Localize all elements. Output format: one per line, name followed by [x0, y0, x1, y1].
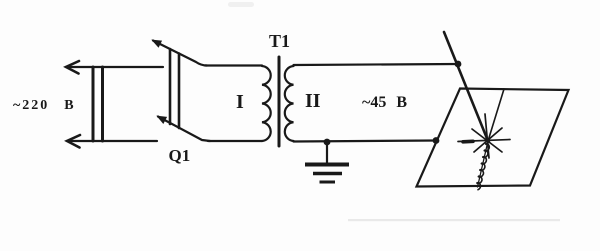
transformer T1 core [278, 57, 281, 146]
node: electrode junction dot [455, 61, 462, 68]
wire: secondary top to electrode [294, 64, 459, 65]
transformer T1 primary winding [262, 66, 271, 141]
switch Q1 top blade [153, 41, 207, 66]
weld seam squiggle [477, 144, 489, 190]
switch Q1 bottom blade arrowhead [158, 117, 166, 123]
wire: switch to primary bottom [208, 140, 262, 142]
transformer T1 secondary winding [285, 66, 294, 141]
node: ground junction dot [324, 139, 331, 146]
weld seam continuation under squiggle [478, 141, 489, 187]
arc star center blob [486, 139, 491, 144]
arc star rays [458, 114, 510, 158]
wire: switch to primary top [205, 64, 262, 66]
label II secondary [305, 90, 321, 113]
workpiece plate [417, 89, 569, 187]
wire: bottom mains lead [67, 140, 157, 142]
electrode [444, 32, 488, 141]
ground bar 3 [320, 181, 336, 184]
switch Q1 link bar line 2 [178, 54, 181, 129]
switch Q1 bottom blade [158, 117, 210, 142]
faint scan streak bottom right [348, 219, 560, 221]
label T1 [269, 31, 290, 52]
ground bar 1 [305, 163, 349, 167]
wire: secondary bottom to workpiece [294, 141, 437, 142]
arrow: top mains arrow [66, 61, 79, 74]
wire: top mains lead [66, 66, 163, 68]
label I primary [236, 91, 244, 114]
switch Q1 link bar line 1 [169, 49, 172, 124]
arrow: bottom mains arrow [67, 135, 80, 148]
arc star left thick blob [463, 140, 473, 144]
node: workpiece junction dot [433, 137, 440, 144]
switch Q1 top blade arrowhead [153, 41, 161, 47]
plug connector line 2 [101, 67, 104, 141]
label Q1 [169, 146, 191, 166]
ground bar 2 [313, 172, 342, 175]
weld seam line [488, 89, 504, 141]
plug connector line 1 [92, 67, 95, 141]
label ~45 V [362, 94, 407, 112]
faint scan smudge top [228, 2, 254, 7]
ground stem [326, 142, 328, 164]
label ~220 V [13, 98, 74, 114]
